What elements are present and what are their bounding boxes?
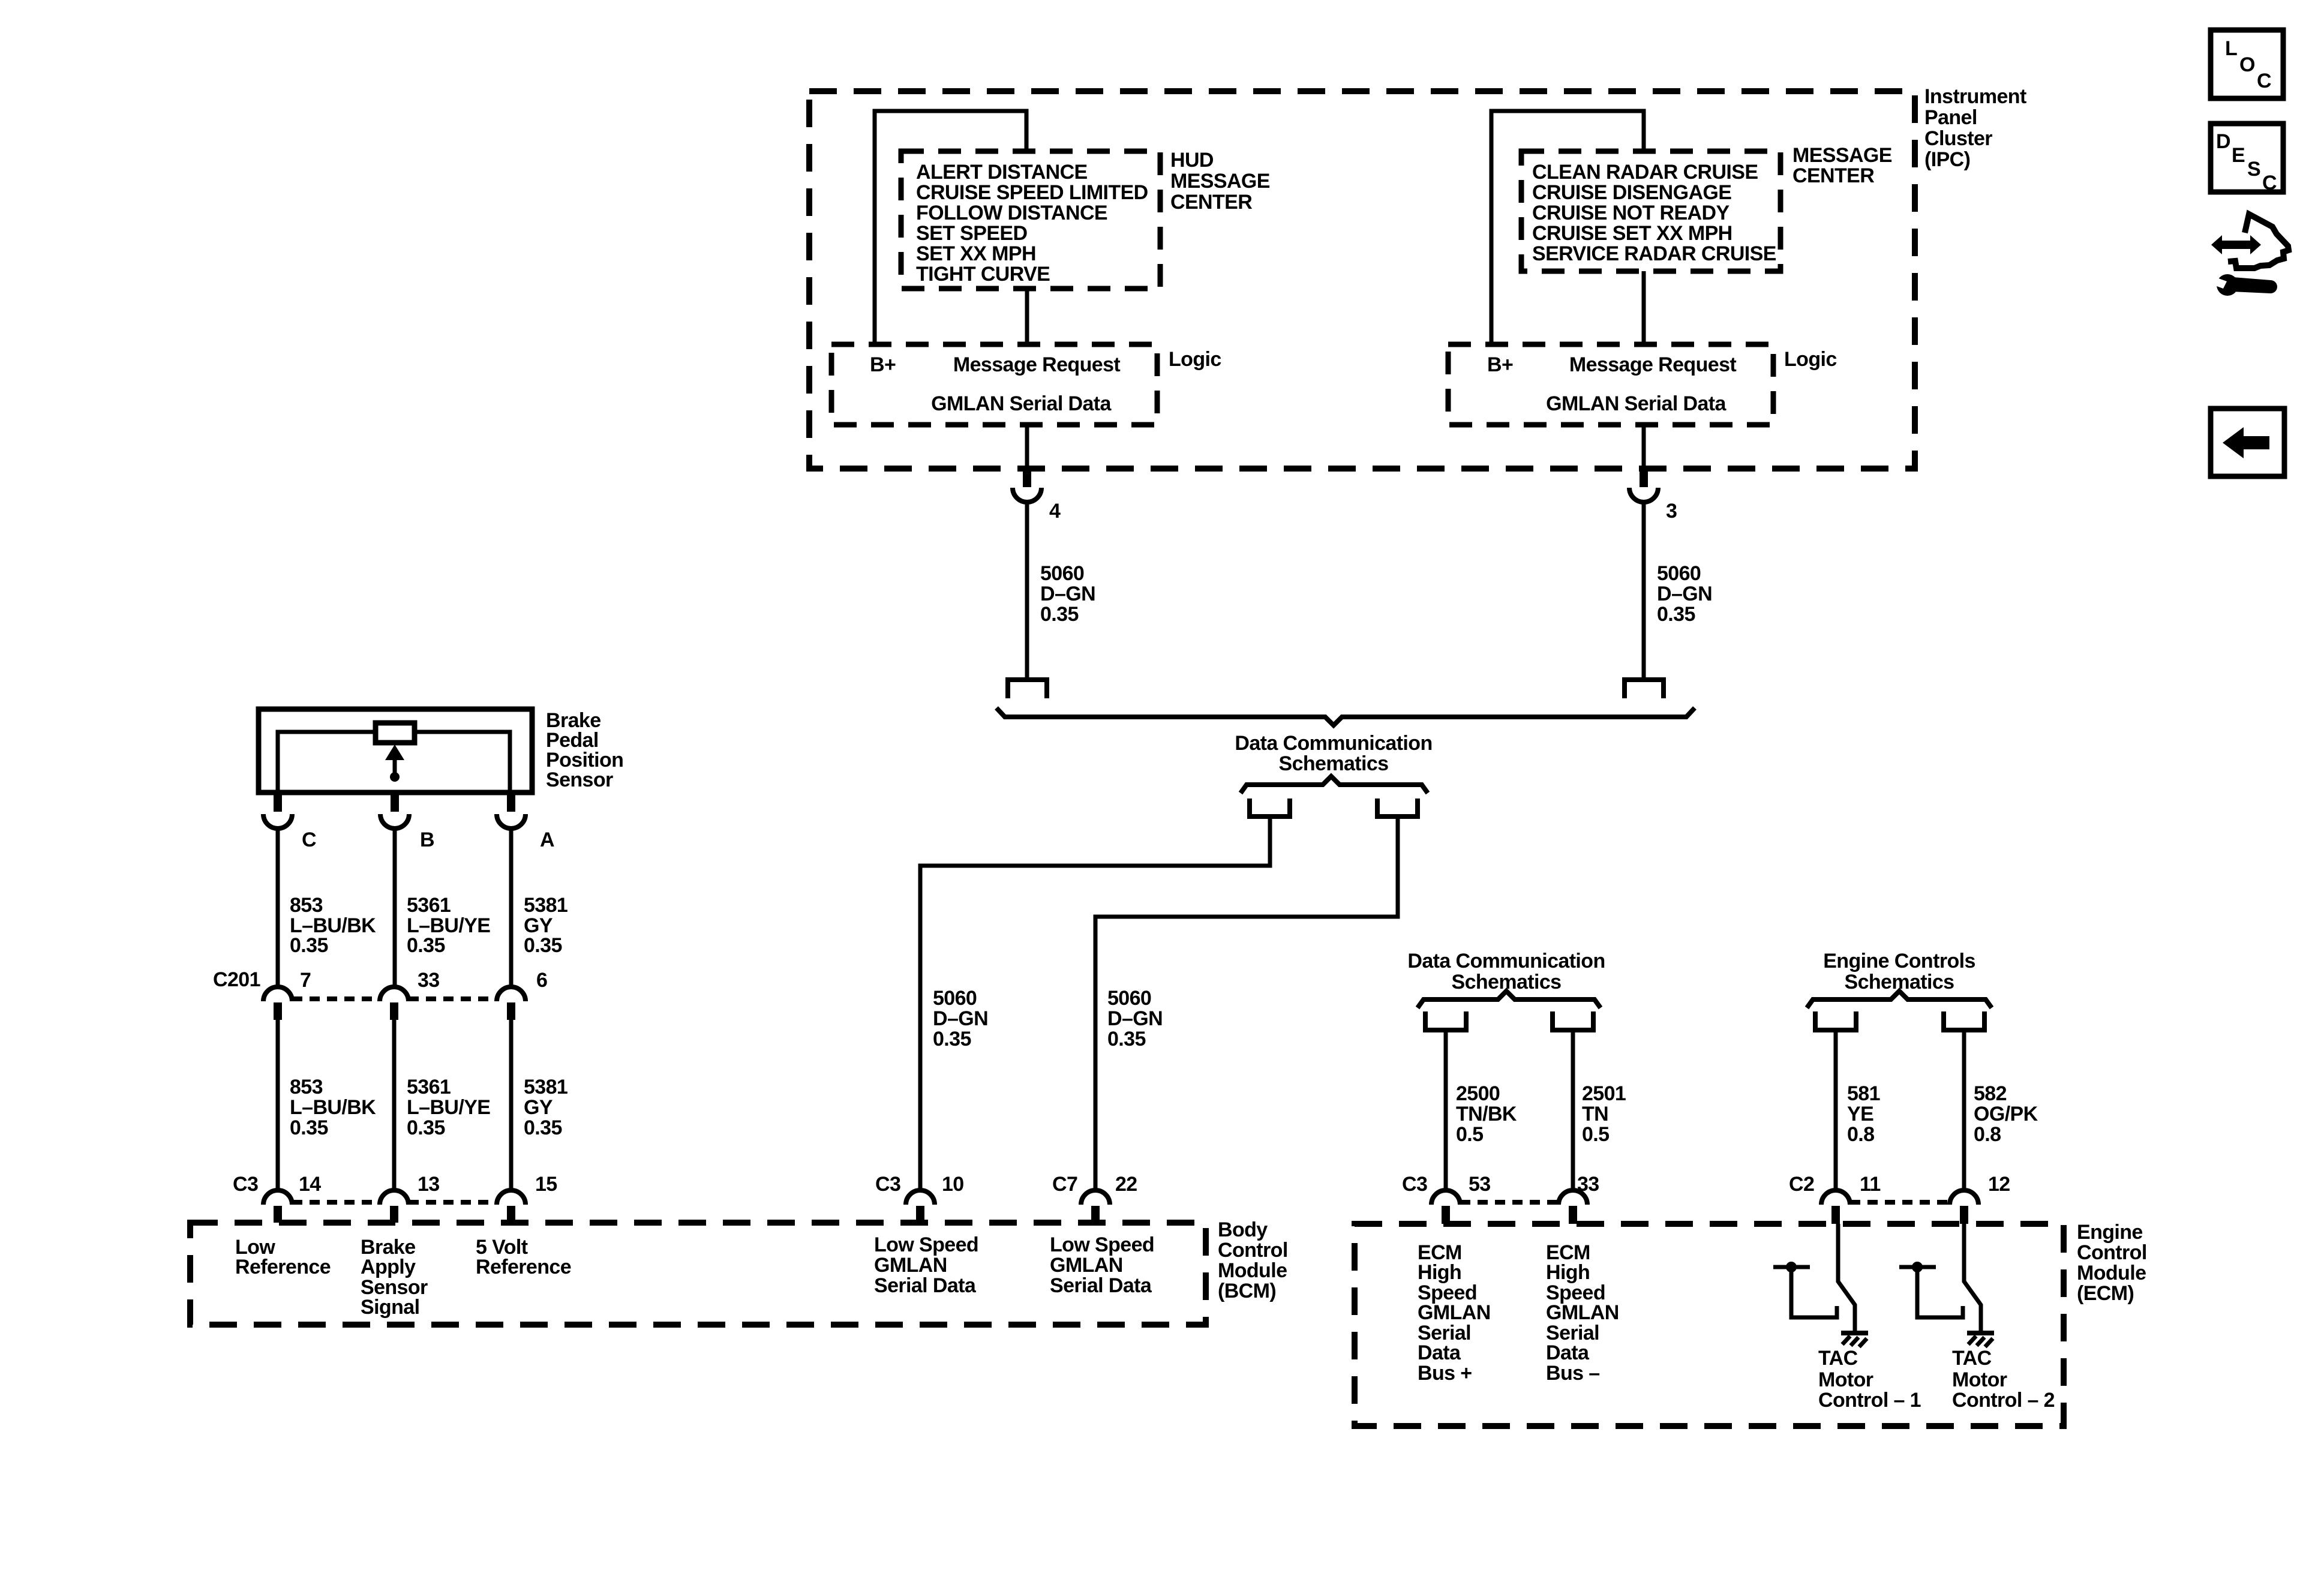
wire 5381 GY 0.35 (pin A to C201-6) (511, 828, 568, 987)
svg-text:Module: Module (1218, 1259, 1287, 1282)
svg-text:3: 3 (1666, 500, 1677, 523)
connector ECM C3 pin 33 (1559, 1173, 1599, 1224)
connector C201 pin 33 (380, 969, 440, 1020)
svg-text:0.5: 0.5 (1456, 1123, 1483, 1146)
svg-text:Logic: Logic (1169, 348, 1221, 371)
svg-text:CRUISE NOT READY: CRUISE NOT READY (1532, 202, 1730, 224)
svg-text:HUD: HUD (1170, 149, 1214, 172)
svg-text:CRUISE SPEED LIMITED: CRUISE SPEED LIMITED (916, 181, 1148, 204)
svg-text:Data Communication: Data Communication (1235, 732, 1432, 755)
svg-text:Cluster: Cluster (1924, 127, 1992, 150)
off-page terminal (pin 3 wire end) (1625, 680, 1664, 698)
wire: B+ feed to Message Center (1491, 111, 1644, 344)
svg-text:C3: C3 (875, 1173, 900, 1196)
svg-text:581: 581 (1847, 1082, 1880, 1105)
svg-text:15: 15 (535, 1173, 557, 1196)
ECM C3 connector dashed line (1460, 1200, 1559, 1205)
pin function: 5 Volt Reference (476, 1236, 571, 1278)
wire: HUD message center to Logic (1025, 289, 1029, 344)
svg-text:GY: GY (524, 1096, 553, 1119)
svg-text:5060: 5060 (1040, 562, 1084, 585)
svg-text:14: 14 (299, 1173, 321, 1196)
svg-text:GMLAN Serial Data: GMLAN Serial Data (931, 392, 1112, 415)
svg-text:33: 33 (418, 969, 440, 992)
svg-text:0.35: 0.35 (524, 1116, 562, 1139)
svg-text:5361: 5361 (407, 894, 451, 917)
svg-text:ALERT DISTANCE: ALERT DISTANCE (916, 161, 1088, 184)
svg-text:GMLAN: GMLAN (1418, 1301, 1491, 1324)
svg-text:TAC: TAC (1952, 1347, 1992, 1370)
svg-text:5060: 5060 (1107, 987, 1151, 1010)
svg-text:SET XX MPH: SET XX MPH (916, 242, 1036, 265)
svg-text:E: E (2232, 144, 2245, 167)
connector pin 3 (IPC) (1629, 425, 1677, 523)
label: Data Communication Schematics (ECM side) (1407, 950, 1605, 993)
svg-text:C3: C3 (1402, 1173, 1427, 1196)
wire label 5060 D-GN 0.35 (BCM pin 10 wire) (933, 987, 988, 1050)
svg-text:C3: C3 (233, 1173, 258, 1196)
svg-text:0.35: 0.35 (290, 1116, 328, 1139)
svg-text:High: High (1546, 1261, 1590, 1284)
svg-text:MESSAGE: MESSAGE (1792, 144, 1892, 167)
wire 5381 GY 0.35 (C201-6 to BCM C3-15) (511, 1020, 568, 1191)
svg-text:SERVICE RADAR CRUISE: SERVICE RADAR CRUISE (1532, 242, 1776, 265)
wire 5361 L-BU/YE 0.35 (pin B to C201-33) (395, 828, 490, 987)
svg-text:SET SPEED: SET SPEED (916, 222, 1027, 245)
svg-text:Low Speed: Low Speed (1050, 1233, 1154, 1256)
svg-text:CLEAN RADAR CRUISE: CLEAN RADAR CRUISE (1532, 161, 1758, 184)
svg-text:853: 853 (290, 894, 323, 917)
svg-text:53: 53 (1469, 1173, 1491, 1196)
brace: from Data Communication Schematics (ECM side) (1418, 991, 1601, 1008)
connector ECM C3 pin 53 (1402, 1173, 1491, 1224)
wire: B+ feed to HUD message center (875, 111, 1026, 344)
svg-text:Motor: Motor (1952, 1368, 2007, 1391)
svg-text:Module: Module (2077, 1262, 2146, 1284)
svg-text:GMLAN: GMLAN (1050, 1254, 1123, 1277)
svg-text:B+: B+ (870, 353, 896, 376)
pin function: Low Reference (235, 1236, 331, 1278)
connector C201 pin 7 (263, 969, 311, 1020)
off-page terminal (TAC motor control 1) (1815, 1011, 1856, 1030)
label: Logic (HUD side) (1169, 348, 1221, 371)
wire 5361 L-BU/YE 0.35 (C201-33 to BCM C3-13) (394, 1020, 490, 1191)
svg-text:B+: B+ (1487, 353, 1513, 376)
svg-text:CRUISE SET XX MPH: CRUISE SET XX MPH (1532, 222, 1733, 245)
wire 853 L-BU/BK 0.35 (C201-7 to BCM C3-14) (278, 1020, 376, 1191)
svg-text:YE: YE (1847, 1103, 1873, 1125)
connector BCM C3 pin 13 (380, 1173, 440, 1223)
wire 581 YE 0.8 (1836, 1032, 1880, 1191)
svg-text:C: C (302, 828, 316, 851)
svg-text:Body: Body (1218, 1218, 1268, 1241)
svg-text:0.8: 0.8 (1974, 1123, 2001, 1146)
svg-text:11: 11 (1860, 1173, 1881, 1196)
svg-text:Message Request: Message Request (1569, 353, 1737, 376)
svg-text:Serial Data: Serial Data (1050, 1274, 1152, 1297)
wire 853 L-BU/BK 0.35 (pin C to C201-7) (278, 828, 376, 987)
icon: DESC button (2211, 124, 2283, 194)
brace: from Engine Controls Schematics (1807, 991, 1992, 1008)
svg-text:Serial Data: Serial Data (874, 1274, 977, 1297)
wire 5060 D-GN 0.35 (pin 4 drop) (1027, 502, 1095, 678)
svg-text:D–GN: D–GN (1657, 583, 1712, 605)
label: Data Communication Schematics (mid) (1235, 732, 1432, 775)
svg-text:5361: 5361 (407, 1076, 451, 1098)
ground (TAC motor 1) (1841, 1333, 1868, 1347)
svg-text:Apply: Apply (361, 1256, 416, 1278)
svg-text:Schematics: Schematics (1279, 752, 1389, 775)
svg-text:GMLAN: GMLAN (874, 1254, 947, 1277)
off-page terminal (GMLAN bus - ) (1553, 1011, 1593, 1030)
svg-text:L–BU/YE: L–BU/YE (407, 1096, 490, 1119)
svg-text:L–BU/BK: L–BU/BK (290, 1096, 376, 1119)
svg-text:Bus +: Bus + (1418, 1362, 1472, 1385)
svg-text:Control: Control (2077, 1241, 2147, 1264)
svg-text:0.5: 0.5 (1582, 1123, 1609, 1146)
connector pin A (sensor) (497, 792, 554, 851)
svg-text:D: D (2216, 130, 2230, 153)
wire 2500 TN/BK 0.5 (1446, 1032, 1517, 1191)
svg-text:853: 853 (290, 1076, 323, 1098)
BCM C3 connector dashed line (292, 1200, 497, 1205)
label: Body Control Module (BCM) (1218, 1218, 1288, 1302)
wiper arrow (sensor signal) (385, 745, 404, 782)
wire: Message Center to Logic (1642, 271, 1646, 344)
svg-text:High: High (1418, 1261, 1461, 1284)
svg-text:Sensor: Sensor (546, 769, 613, 791)
svg-text:C201: C201 (213, 968, 260, 991)
svg-text:Data: Data (1418, 1341, 1461, 1364)
svg-text:Low Speed: Low Speed (874, 1233, 978, 1256)
brace: to Data Communication Schematics (lower) (996, 708, 1695, 725)
connector BCM C3 pin 14 (263, 1173, 321, 1223)
connector C201 pin 6 (497, 969, 547, 1020)
svg-text:Panel: Panel (1924, 106, 1977, 129)
svg-text:Engine: Engine (2077, 1221, 2143, 1244)
wire label 5060 D-GN 0.35 (BCM pin 22 wire) (1107, 987, 1163, 1050)
pin function: Brake Apply Sensor Signal (361, 1236, 428, 1319)
svg-text:10: 10 (942, 1173, 964, 1196)
label: Engine Controls Schematics (1823, 950, 1975, 993)
svg-text:O: O (2239, 53, 2255, 76)
svg-text:TN: TN (1582, 1103, 1608, 1125)
svg-text:5381: 5381 (524, 1076, 568, 1098)
inline connector C201 label (213, 968, 260, 991)
svg-text:5381: 5381 (524, 894, 568, 917)
off-page terminal (pin 4 wire end) (1008, 680, 1047, 698)
svg-text:L: L (2225, 37, 2237, 60)
svg-text:582: 582 (1974, 1082, 2007, 1105)
svg-text:Data Communication: Data Communication (1407, 950, 1605, 972)
svg-text:Reference: Reference (476, 1256, 571, 1278)
label: Logic (Message Center side) (1784, 348, 1837, 371)
pin function: ECM High Speed GMLAN Serial Data Bus + (1418, 1241, 1491, 1385)
svg-text:12: 12 (1988, 1173, 2010, 1196)
connector pin C (sensor) (263, 792, 316, 851)
potentiometer R (sensor element) (278, 723, 510, 792)
svg-text:33: 33 (1577, 1173, 1599, 1196)
svg-text:S: S (2247, 158, 2260, 181)
svg-text:C: C (2257, 70, 2271, 92)
svg-text:B: B (420, 828, 434, 851)
ground (TAC motor 2) (1967, 1333, 1994, 1347)
label: Brake Pedal Position Sensor (546, 709, 623, 791)
svg-text:Control: Control (1218, 1239, 1288, 1262)
label: HUD MESSAGE CENTER (1170, 149, 1270, 214)
label: MESSAGE CENTER (1792, 144, 1892, 187)
block: Logic box (HUD side) (831, 344, 1157, 425)
C201 connector dashed line (292, 996, 497, 1001)
off-page terminal (GMLAN bus + ) (1425, 1011, 1466, 1030)
icon: back arrow button (2211, 409, 2284, 476)
brace: from Data Communication Schematics (upper) (1241, 776, 1428, 793)
svg-text:(ECM): (ECM) (2077, 1282, 2134, 1305)
svg-text:Control – 2: Control – 2 (1952, 1389, 2055, 1412)
block: Logic box (Message Center side) (1448, 344, 1773, 425)
svg-text:(BCM): (BCM) (1218, 1280, 1276, 1302)
svg-text:2500: 2500 (1456, 1082, 1500, 1105)
svg-text:Instrument: Instrument (1924, 85, 2026, 108)
component box: Brake Pedal Position Sensor (259, 709, 532, 792)
svg-text:Control – 1: Control – 1 (1818, 1389, 1921, 1412)
svg-text:CENTER: CENTER (1170, 191, 1252, 214)
pin function: Low Speed GMLAN Serial Data (pin 10) (874, 1233, 978, 1297)
connector ECM C2 pin 12 (1950, 1173, 2010, 1224)
svg-text:0.35: 0.35 (933, 1028, 971, 1050)
block: Message Center display box (1521, 151, 1780, 271)
label: Instrument Panel Cluster (IPC) (1924, 85, 2026, 171)
svg-text:0.35: 0.35 (524, 934, 562, 957)
svg-text:22: 22 (1115, 1173, 1137, 1196)
svg-text:0.35: 0.35 (407, 934, 445, 957)
connector BCM C3 pin 15 (497, 1173, 557, 1223)
off-page terminal (low speed GMLAN to BCM C3-10) (1250, 798, 1290, 816)
svg-text:TIGHT CURVE: TIGHT CURVE (916, 263, 1050, 286)
svg-text:Reference: Reference (235, 1256, 331, 1278)
module box: Engine Control Module (ECM) (1355, 1224, 2064, 1426)
svg-text:(IPC): (IPC) (1924, 148, 1970, 171)
svg-text:C2: C2 (1789, 1173, 1814, 1196)
TAC motor driver 2 (switch blade and motor loop) (1899, 1224, 1981, 1335)
svg-text:Motor: Motor (1818, 1368, 1873, 1391)
pin function: ECM High Speed GMLAN Serial Data Bus - (1546, 1241, 1619, 1385)
module box: Body Control Module (BCM) (190, 1223, 1206, 1325)
connector BCM C3 pin 10 (875, 1173, 964, 1223)
off-page terminal (low speed GMLAN to BCM C7-22) (1377, 798, 1418, 816)
pin function: Low Speed GMLAN Serial Data (pin 22) (1050, 1233, 1154, 1297)
svg-text:5060: 5060 (933, 987, 977, 1010)
wire: low speed GMLAN serial data to BCM pin 10 (920, 819, 1270, 1191)
svg-text:Logic: Logic (1784, 348, 1837, 371)
svg-text:2501: 2501 (1582, 1082, 1626, 1105)
svg-text:Bus –: Bus – (1546, 1362, 1600, 1385)
svg-text:Signal: Signal (361, 1296, 419, 1319)
TAC motor driver 1 (switch blade and motor loop) (1773, 1224, 1855, 1335)
svg-text:0.35: 0.35 (290, 934, 328, 957)
off-page terminal (TAC motor control 2) (1944, 1011, 1984, 1030)
svg-text:D–GN: D–GN (933, 1007, 988, 1030)
svg-text:4: 4 (1049, 500, 1061, 523)
svg-text:MESSAGE: MESSAGE (1170, 170, 1270, 193)
wire 582 OG/PK 0.8 (1964, 1032, 2038, 1191)
icon: LOC button (2211, 30, 2283, 98)
svg-text:Engine Controls: Engine Controls (1823, 950, 1975, 972)
icon: diagnostic wrench with arrows (2211, 214, 2289, 296)
svg-text:0.35: 0.35 (407, 1116, 445, 1139)
pin function: TAC Motor Control - 2 (1952, 1347, 2055, 1412)
svg-text:Data: Data (1546, 1341, 1590, 1364)
svg-text:5060: 5060 (1657, 562, 1701, 585)
ECM C2 connector dashed line (1850, 1200, 1950, 1205)
label: Engine Control Module (ECM) (2077, 1221, 2147, 1305)
svg-text:0.35: 0.35 (1040, 603, 1079, 626)
pin function: TAC Motor Control - 1 (1818, 1347, 1921, 1412)
svg-text:0.35: 0.35 (1107, 1028, 1146, 1050)
svg-text:A: A (540, 828, 554, 851)
svg-text:0.8: 0.8 (1847, 1123, 1874, 1146)
connector pin B (sensor) (380, 792, 434, 851)
svg-text:0.35: 0.35 (1657, 603, 1695, 626)
connector ECM C2 pin 11 (1789, 1173, 1881, 1224)
svg-text:6: 6 (536, 969, 547, 992)
svg-text:GMLAN Serial Data: GMLAN Serial Data (1546, 392, 1727, 415)
svg-text:CRUISE DISENGAGE: CRUISE DISENGAGE (1532, 181, 1731, 204)
svg-text:7: 7 (300, 969, 311, 992)
svg-text:CENTER: CENTER (1792, 164, 1874, 187)
svg-text:GMLAN: GMLAN (1546, 1301, 1619, 1324)
wire 2501 TN 0.5 (1573, 1032, 1626, 1191)
connector pin 4 (IPC) (1013, 425, 1061, 523)
svg-text:C7: C7 (1052, 1173, 1077, 1196)
block: HUD Message Center display box (901, 151, 1160, 289)
wire: low speed GMLAN serial data to BCM pin 22 (1095, 819, 1398, 1191)
svg-text:TAC: TAC (1818, 1347, 1858, 1370)
svg-text:Message Request: Message Request (953, 353, 1121, 376)
module box: Instrument Panel Cluster (IPC) (809, 91, 1915, 469)
svg-text:13: 13 (418, 1173, 440, 1196)
svg-text:D–GN: D–GN (1040, 583, 1095, 605)
connector C3 label (BCM left) (233, 1173, 258, 1196)
connector BCM C7 pin 22 (1052, 1173, 1137, 1223)
wire 5060 D-GN 0.35 (pin 3 drop) (1644, 502, 1712, 678)
svg-text:D–GN: D–GN (1107, 1007, 1163, 1030)
svg-text:C: C (2262, 172, 2277, 194)
svg-text:TN/BK: TN/BK (1456, 1103, 1517, 1125)
svg-text:FOLLOW DISTANCE: FOLLOW DISTANCE (916, 202, 1107, 224)
svg-text:OG/PK: OG/PK (1974, 1103, 2038, 1125)
